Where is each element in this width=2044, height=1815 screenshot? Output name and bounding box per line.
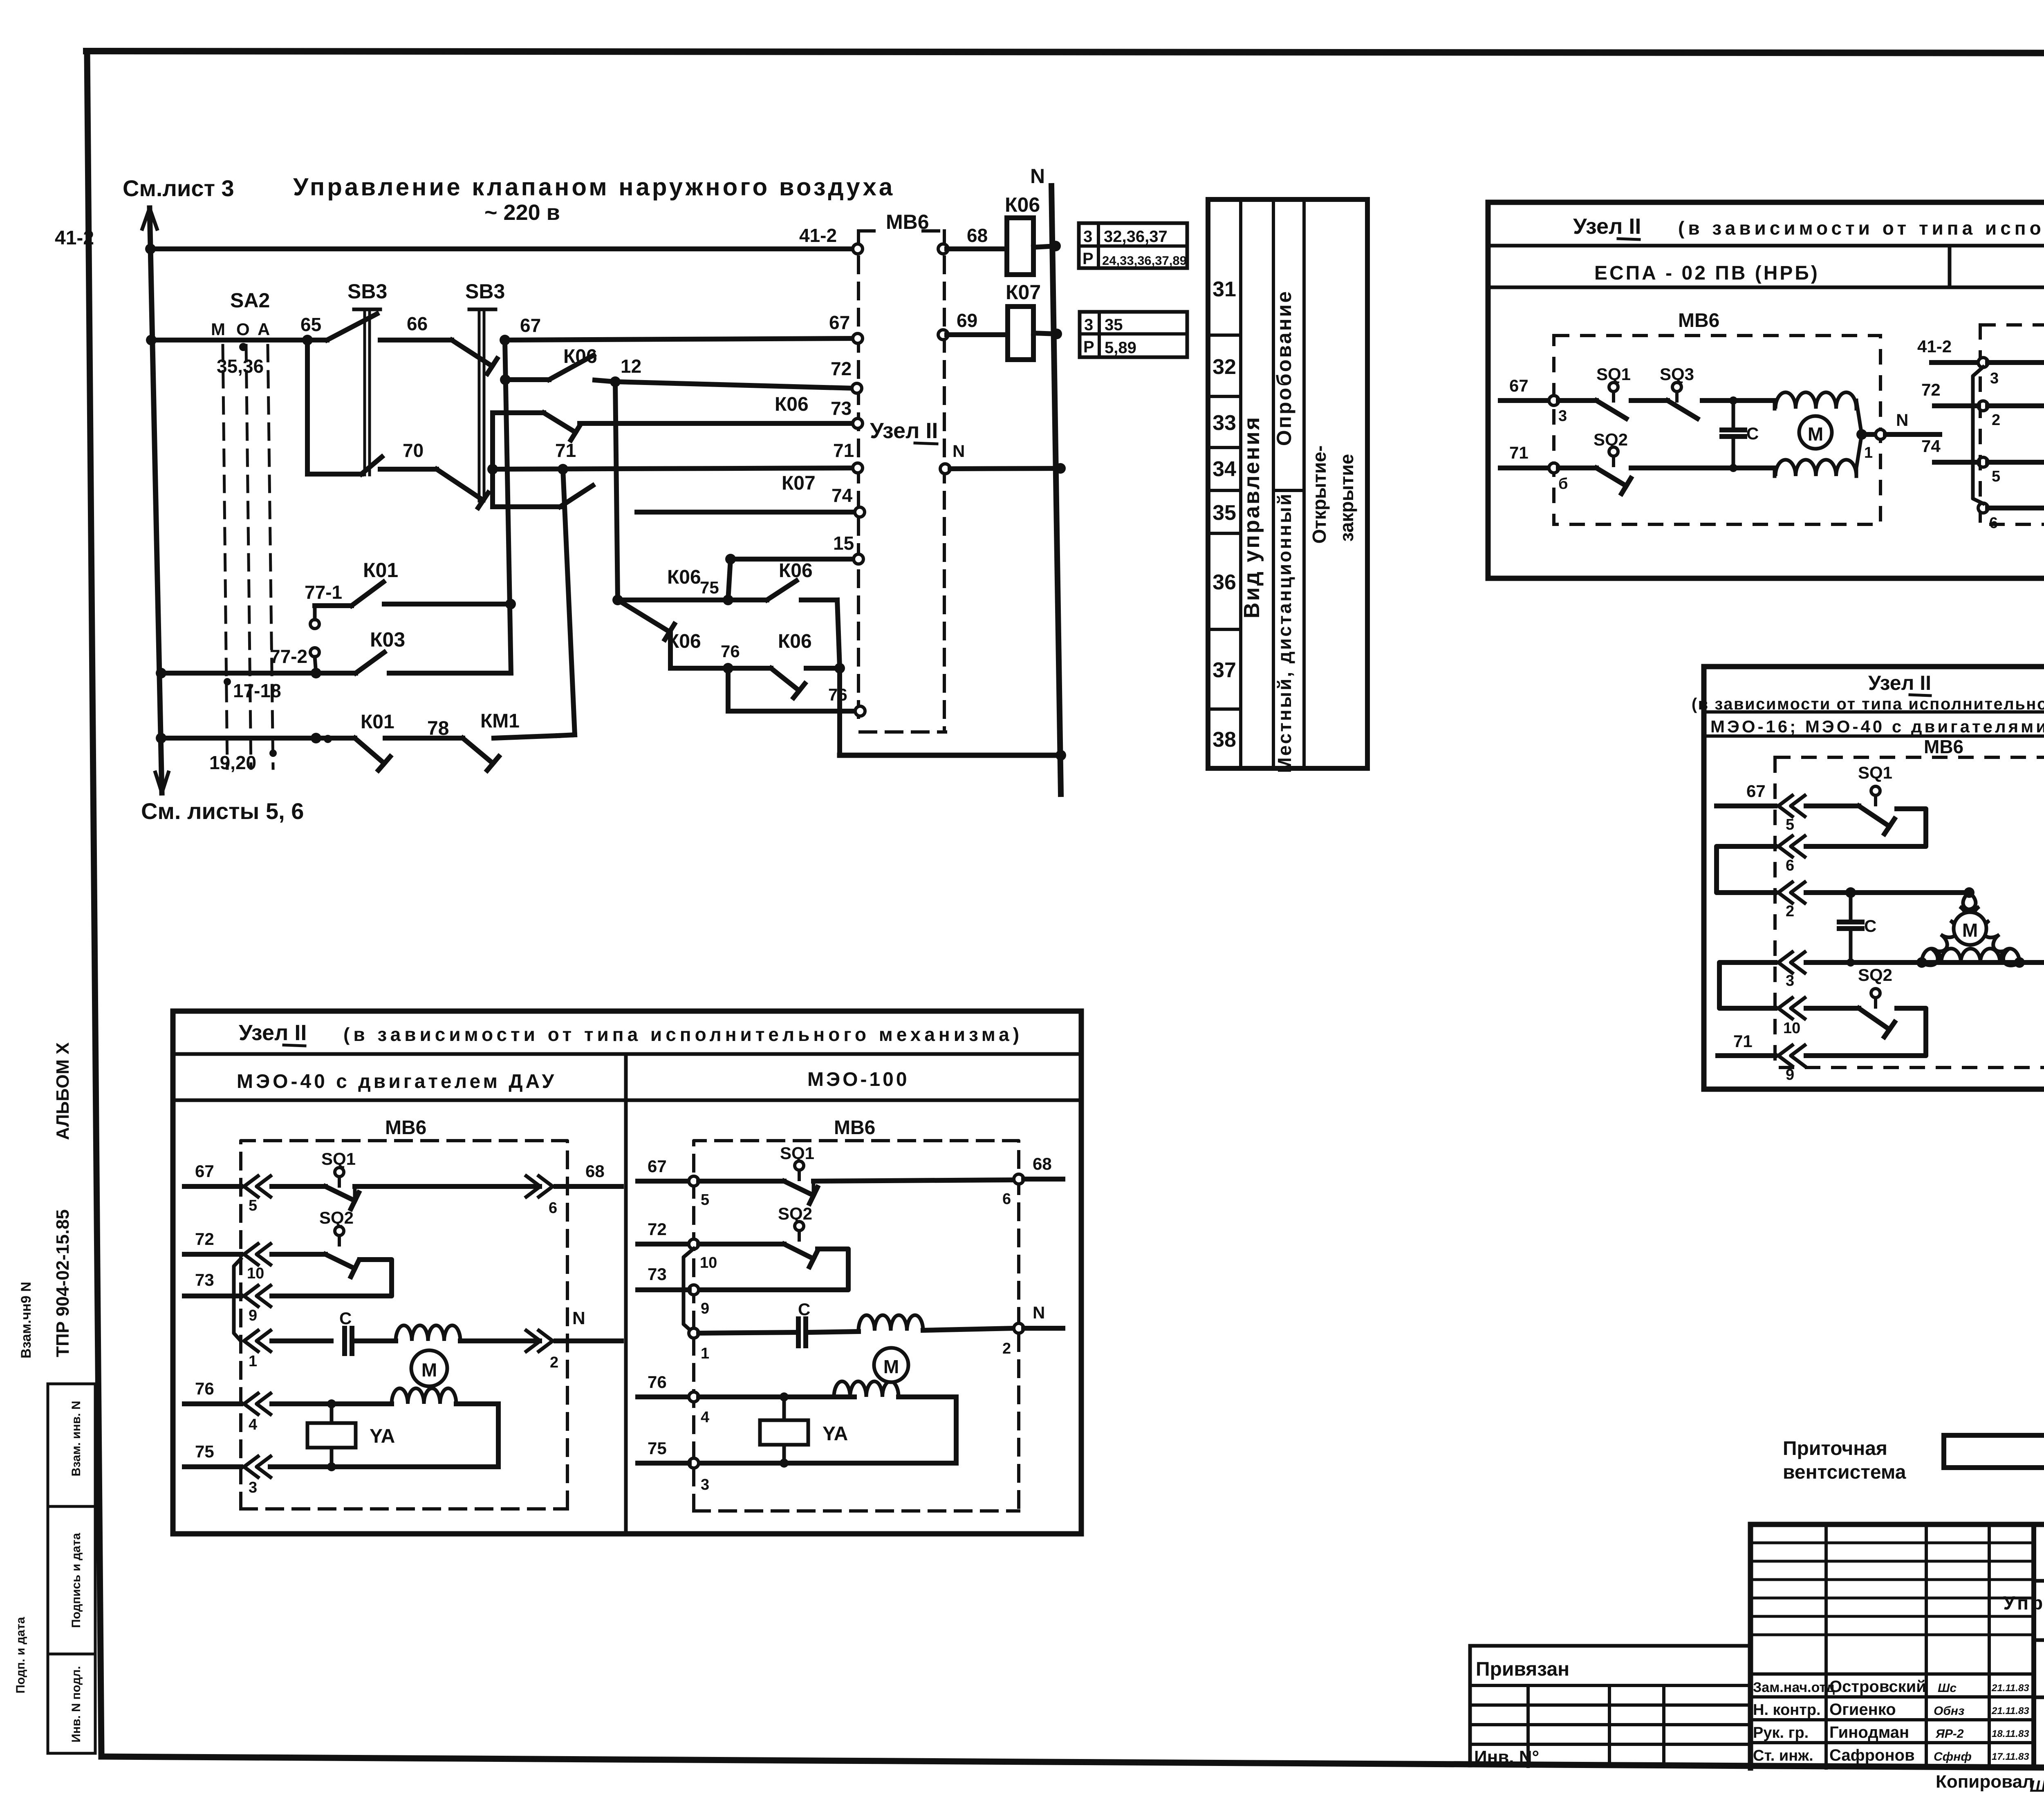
table label Открытие- xyxy=(1309,445,1330,544)
node 77-1 junction on vertical xyxy=(505,599,516,609)
svg-text:17-18: 17-18 xyxy=(233,680,281,701)
title Управление клапаном наружного воздуха xyxy=(293,173,895,201)
svg-text:М: М xyxy=(883,1356,899,1377)
svg-text:Местный, дистанционный: Местный, дистанционный xyxy=(1274,492,1295,773)
МЭО-6.3 wire row 2 xyxy=(1988,402,2044,410)
svg-text:38: 38 xyxy=(1213,728,1236,752)
МЭО-6.3 switch SQ1 xyxy=(1988,324,2044,389)
svg-text:75: 75 xyxy=(648,1439,667,1458)
svg-text:ЯР-2: ЯР-2 xyxy=(1935,1727,1964,1741)
svg-text:69: 69 xyxy=(957,310,977,331)
contact К06 row 73 xyxy=(493,413,855,440)
svg-text:35: 35 xyxy=(1213,501,1236,525)
ЕСПА switch SQ2 xyxy=(1558,430,1631,494)
ДСР arrow row 3 xyxy=(1778,952,1805,990)
relay coil К07 xyxy=(1008,307,1057,360)
МВ6 dashed box xyxy=(858,231,946,732)
ДАУ arrow N out xyxy=(526,1308,621,1371)
label 66 xyxy=(407,313,428,334)
contact К01 row 77-1 xyxy=(315,582,511,606)
svg-text:67: 67 xyxy=(648,1157,667,1176)
svg-text:К06: К06 xyxy=(563,346,597,367)
svg-text:Сафронов: Сафронов xyxy=(1829,1746,1915,1764)
label 65 xyxy=(300,314,321,335)
node row15 junction xyxy=(725,554,736,564)
ЕСПА capacitor C xyxy=(1722,396,1759,472)
svg-text:МВ6: МВ6 xyxy=(834,1117,875,1139)
svg-text:5: 5 xyxy=(249,1197,257,1214)
label 76 small xyxy=(721,642,740,661)
МЭО-100 terminal row76 xyxy=(689,1392,709,1426)
svg-text:М: М xyxy=(1962,920,1978,941)
svg-text:КМ1: КМ1 xyxy=(480,710,520,732)
frame top border xyxy=(86,51,2044,54)
svg-text:2: 2 xyxy=(550,1354,558,1371)
svg-text:вентсистема: вентсистема xyxy=(1783,1461,1906,1483)
label Привязан xyxy=(1476,1658,1569,1680)
label 71 mid xyxy=(555,440,576,461)
svg-text:Узел II: Узел II xyxy=(1573,214,1641,239)
svg-text:3: 3 xyxy=(249,1479,257,1496)
ДАУ wire 75 in xyxy=(184,1442,241,1467)
МВ6 left terminals circles xyxy=(852,244,865,716)
label К06 e xyxy=(778,631,812,652)
label Инв.N xyxy=(1474,1747,1539,1767)
МЭО-6.3 wire 41-2 in xyxy=(1917,337,1979,363)
label 68 xyxy=(967,225,988,246)
svg-text:35,36: 35,36 xyxy=(217,356,264,377)
svg-text:Взам.чн9 N: Взам.чн9 N xyxy=(18,1282,34,1358)
label МЭО-100 xyxy=(807,1069,910,1090)
МЭО-100 switch SQ1 xyxy=(699,1144,1014,1204)
svg-text:SB3: SB3 xyxy=(347,280,387,303)
label Приточная вентсистема xyxy=(1783,1438,1906,1483)
node N junction xyxy=(1055,463,1066,474)
contact К07 row 74 xyxy=(493,486,857,512)
МЭО-100 wire 73 in xyxy=(638,1264,689,1290)
wire table 2 xyxy=(1080,312,1187,357)
svg-text:19,20: 19,20 xyxy=(209,752,256,773)
svg-text:41-2: 41-2 xyxy=(55,227,94,249)
ДАУ wire row 75 xyxy=(270,1462,498,1471)
wire 68 row xyxy=(947,246,1007,251)
svg-text:Инв. N°: Инв. N° xyxy=(1474,1747,1539,1767)
svg-text:Обнз: Обнз xyxy=(1934,1704,1964,1718)
МЭО-100 capacitor C xyxy=(798,1300,858,1346)
switch SA2 dashed lines xyxy=(223,345,273,768)
svg-text:SB3: SB3 xyxy=(465,280,505,303)
ДСР box frame xyxy=(1704,667,2044,1089)
МЭО-100 terminal row1 xyxy=(689,1328,709,1362)
terminal 77-2 circle xyxy=(310,648,319,673)
label К01 lower xyxy=(361,711,394,733)
svg-text:К06: К06 xyxy=(667,566,701,588)
svg-text:С: С xyxy=(798,1300,810,1319)
wire row 70 xyxy=(380,467,437,472)
svg-text:Рук. гр.: Рук. гр. xyxy=(1753,1724,1809,1741)
terminal 77-1 circle xyxy=(310,606,319,629)
svg-text:3: 3 xyxy=(1786,972,1794,989)
ДАУ arrow row 75 xyxy=(244,1457,271,1497)
svg-text:Опробование: Опробование xyxy=(1273,290,1295,446)
ДАУ capacitor C xyxy=(339,1309,396,1354)
svg-text:Узел II: Узел II xyxy=(870,419,938,443)
wire row 65 xyxy=(151,338,327,342)
МЭО-100 terminal 68 xyxy=(1002,1154,1063,1208)
ДАУ wire row N xyxy=(272,1338,331,1343)
svg-text:33: 33 xyxy=(1213,411,1236,435)
frame left border xyxy=(87,51,101,1754)
svg-text:34: 34 xyxy=(1213,457,1236,481)
svg-text:N: N xyxy=(1033,1303,1045,1322)
node lower right junction xyxy=(834,663,845,674)
node bus-1806 junction xyxy=(156,733,166,743)
wire down to N return xyxy=(840,668,1061,755)
svg-text:Шгв-: Шгв- xyxy=(2030,1777,2044,1795)
wire 41-2 top bus xyxy=(150,246,855,251)
pushbutton SB3 first xyxy=(327,309,380,475)
node bus-832 junction xyxy=(146,335,157,345)
svg-text:(в зависимости от типа исполни: (в зависимости от типа исполнительного м… xyxy=(1678,217,2044,239)
ДСР arrow row 10 xyxy=(1778,998,1805,1037)
svg-text:МВ6: МВ6 xyxy=(385,1117,426,1139)
svg-text:1: 1 xyxy=(701,1345,709,1362)
svg-text:1: 1 xyxy=(1864,444,1873,461)
ДСР МВ6 dashed box xyxy=(1775,736,2044,1068)
bottom box frame xyxy=(173,1011,1081,1534)
svg-text:68: 68 xyxy=(585,1162,605,1181)
svg-text:67: 67 xyxy=(829,312,850,333)
ДАУ wire 67 in xyxy=(184,1162,241,1186)
svg-text:Привязан: Привязан xyxy=(1476,1658,1569,1680)
wire node65 down to row 70 xyxy=(307,340,361,474)
empty system box xyxy=(1944,1435,2044,1468)
svg-text:37: 37 xyxy=(1213,658,1236,682)
svg-text:ЕСПА - 02 ПВ (НРБ): ЕСПА - 02 ПВ (НРБ) xyxy=(1594,262,1820,284)
svg-text:Н. контр.: Н. контр. xyxy=(1753,1701,1821,1719)
svg-text:Узел II: Узел II xyxy=(1868,671,1931,694)
label 77-2 xyxy=(270,646,307,667)
wire vertical 12 down xyxy=(615,382,618,600)
label К06 c xyxy=(667,566,701,588)
relay coil К06 xyxy=(1007,218,1056,275)
МЭО-6.3 wire row 5 xyxy=(1988,460,2044,465)
svg-text:(в зависимости от типа исполни: (в зависимости от типа исполнительного м… xyxy=(1692,695,2044,713)
label в зависимости top box xyxy=(1678,217,2044,239)
svg-text:Зам.нач.отд: Зам.нач.отд xyxy=(1753,1680,1835,1695)
svg-text:SQ2: SQ2 xyxy=(1858,965,1892,985)
ДАУ solenoid YA xyxy=(307,1404,395,1467)
wire 67 row to МВ6 xyxy=(505,338,855,340)
ДАУ МВ6 dashed box xyxy=(241,1117,567,1509)
svg-text:Открытие-: Открытие- xyxy=(1309,445,1330,544)
N bus vertical xyxy=(1051,186,1061,794)
table label Местный, дистанционный xyxy=(1274,492,1295,773)
ДСР wire row 2 xyxy=(1806,887,1975,898)
svg-text:6: 6 xyxy=(1989,515,1998,532)
svg-text:6: 6 xyxy=(1002,1191,1011,1208)
ДАУ arrow row 73 xyxy=(244,1286,271,1325)
svg-text:SQ1: SQ1 xyxy=(780,1144,814,1163)
svg-text:77-1: 77-1 xyxy=(305,582,342,603)
ДСР wire 67 in xyxy=(1717,781,1775,806)
ДСР switch SQ2 xyxy=(1806,965,1926,1056)
svg-text:А: А xyxy=(258,320,270,339)
left margin text ТПР 904-02-15.85 xyxy=(53,1209,73,1357)
svg-text:Сфнф: Сфнф xyxy=(1934,1750,1972,1764)
svg-text:К01: К01 xyxy=(363,559,398,582)
svg-text:71: 71 xyxy=(833,440,854,461)
label 67 at МВ6 xyxy=(829,312,850,333)
svg-text:2: 2 xyxy=(1002,1340,1011,1357)
svg-text:Р: Р xyxy=(1083,250,1094,268)
svg-text:5,89: 5,89 xyxy=(1105,339,1136,357)
svg-text:SQ1: SQ1 xyxy=(1858,763,1892,782)
table label Опробование xyxy=(1273,290,1295,446)
label См.лист 3 xyxy=(123,175,234,201)
left margin text Альбом X xyxy=(53,1043,73,1140)
svg-text:77-2: 77-2 xyxy=(270,646,307,667)
svg-text:74: 74 xyxy=(831,485,853,506)
label 17-18 xyxy=(233,680,281,701)
svg-text:6: 6 xyxy=(549,1200,557,1217)
svg-text:67: 67 xyxy=(520,315,541,336)
svg-text:32: 32 xyxy=(1213,355,1236,379)
label К03 xyxy=(370,628,405,651)
svg-text:б: б xyxy=(1558,475,1568,492)
label 41-2 left xyxy=(55,227,94,249)
ДАУ switch SQ2 xyxy=(272,1208,392,1296)
ДАУ arrow row 67 xyxy=(244,1176,271,1215)
ЕСПА switch SQ3 xyxy=(1631,365,1733,419)
title block signature texts xyxy=(1753,1678,1926,1764)
svg-text:10: 10 xyxy=(1783,1020,1800,1037)
svg-text:73: 73 xyxy=(831,398,852,419)
wire vertical К06-К07 pair xyxy=(490,413,495,507)
ЕСПА motor M circle xyxy=(1799,416,1832,449)
ДСР arrow row 6 xyxy=(1778,836,1805,875)
label 12 xyxy=(621,356,641,377)
svg-text:О: О xyxy=(236,320,250,339)
label 72 at МВ6 xyxy=(831,358,852,379)
label 35,36 xyxy=(217,356,264,377)
svg-text:Инв. N подл.: Инв. N подл. xyxy=(69,1666,83,1742)
svg-text:31: 31 xyxy=(1213,278,1236,301)
ДАУ motor winding lower xyxy=(392,1388,498,1467)
svg-text:67: 67 xyxy=(1746,781,1766,801)
node 71-tap junction xyxy=(487,464,498,474)
label 70 xyxy=(403,440,424,461)
table numbers 31-38 xyxy=(1213,278,1236,752)
node 77-2 junction xyxy=(311,668,321,678)
МЭО-100 wire row N xyxy=(699,1332,795,1333)
svg-text:Островский: Островский xyxy=(1829,1678,1926,1696)
svg-text:К06: К06 xyxy=(779,560,813,582)
ДСР motor delta winding xyxy=(1922,893,2019,965)
contact SB3 lower second xyxy=(437,469,488,508)
title block signature scribbles xyxy=(1934,1681,2029,1764)
svg-text:МВ6: МВ6 xyxy=(886,210,929,233)
ДСР wire 71 in xyxy=(1718,1032,1775,1056)
table label Вид управления xyxy=(1239,416,1264,619)
label К06 b xyxy=(779,560,813,582)
МЭО-100 terminal row73 xyxy=(689,1285,709,1317)
ДАУ arrow row 68 out xyxy=(526,1162,621,1217)
wire self-hold row 75 xyxy=(618,598,767,602)
svg-text:N: N xyxy=(572,1308,585,1328)
svg-text:9: 9 xyxy=(1786,1066,1794,1083)
svg-text:78: 78 xyxy=(427,718,449,739)
svg-text:SQ1: SQ1 xyxy=(321,1149,356,1168)
svg-text:Копировал: Копировал xyxy=(1936,1772,2034,1792)
label Копировал xyxy=(1936,1772,2044,1795)
ДСР wire row N xyxy=(1806,957,2044,968)
svg-text:71: 71 xyxy=(1733,1032,1753,1051)
contact К03 xyxy=(356,652,511,673)
wire row 71 to МВ6 xyxy=(495,468,855,469)
label К07 xyxy=(782,472,816,494)
svg-text:Гинодман: Гинодман xyxy=(1829,1723,1909,1741)
МЭО-6.3 МВ6 dashed box xyxy=(1980,301,2044,524)
svg-text:(в зависимости от типа исполни: (в зависимости от типа исполнительного м… xyxy=(343,1024,1023,1045)
svg-text:К06: К06 xyxy=(1005,193,1040,216)
svg-text:YA: YA xyxy=(370,1426,395,1447)
wire table 1 xyxy=(1079,223,1187,268)
contact К06 self-hold upper right xyxy=(767,581,840,667)
svg-text:SQ1: SQ1 xyxy=(1596,365,1631,384)
svg-text:74: 74 xyxy=(1921,436,1941,456)
node 75 mid junction xyxy=(723,595,733,605)
title block stage header xyxy=(2034,1640,2044,1697)
svg-text:66: 66 xyxy=(407,313,428,334)
svg-text:АЛЬБОМ X: АЛЬБОМ X xyxy=(53,1043,73,1140)
label К06 a xyxy=(563,346,597,367)
wire vertical 71 down to КМ1 row xyxy=(563,469,575,735)
wire row 72 to МВ6 xyxy=(615,382,854,388)
wire row 15 xyxy=(728,559,855,600)
ДАУ motor winding upper xyxy=(396,1325,540,1341)
svg-text:21.11.83: 21.11.83 xyxy=(1991,1683,2029,1694)
svg-text:41-2: 41-2 xyxy=(1917,337,1952,356)
svg-text:72: 72 xyxy=(648,1220,667,1239)
svg-text:SA2: SA2 xyxy=(230,289,270,312)
МЭО-100 terminal row67 xyxy=(689,1176,709,1209)
svg-text:Узел II: Узел II xyxy=(239,1021,307,1045)
svg-text:МЭО-16; МЭО-40 с двигателями Д: МЭО-16; МЭО-40 с двигателями ДСР xyxy=(1710,717,2044,736)
ЕСПА terminal 71 xyxy=(1500,443,1568,492)
label 74 xyxy=(831,485,853,506)
label См.листы 5,6 xyxy=(141,798,304,824)
left margin label Инв.N подл. xyxy=(69,1666,83,1742)
МЭО-6.3 wire 72 in xyxy=(1921,380,1979,406)
svg-text:Шс: Шс xyxy=(1938,1681,1957,1695)
label ЕСПА-02 ПВ(НРБ) xyxy=(1594,262,1820,284)
ДАУ wire 76 in xyxy=(184,1379,241,1404)
МЭО-100 terminal row72 xyxy=(689,1239,717,1271)
title block name rows xyxy=(1750,1674,2034,1743)
svg-text:С: С xyxy=(1864,916,1876,935)
svg-text:МЭО-100: МЭО-100 xyxy=(807,1069,910,1090)
node II box frame xyxy=(1488,202,2044,578)
svg-text:YA: YA xyxy=(823,1423,848,1445)
svg-text:6: 6 xyxy=(1786,857,1794,874)
left margin handwriting xyxy=(18,1282,34,1358)
ДАУ wire 73 in xyxy=(184,1270,241,1296)
label Узел II main xyxy=(870,419,938,444)
svg-text:Управление клапаном наружного: Управление клапаном наружного воздуха xyxy=(293,173,895,201)
МЭО-100 left jog xyxy=(684,1249,694,1333)
МЭО-100 wire row 75 xyxy=(699,1459,956,1468)
svg-text:Взам. инв. N: Взам. инв. N xyxy=(69,1401,83,1476)
МЭО-6.3 left terminals xyxy=(1978,358,2000,532)
svg-text:4: 4 xyxy=(249,1416,257,1433)
МЭО-100 wire 72 in xyxy=(638,1220,689,1244)
label N bus xyxy=(1030,165,1045,188)
svg-text:МВ6: МВ6 xyxy=(1924,736,1963,757)
svg-text:Огиенко: Огиенко xyxy=(1829,1701,1896,1719)
svg-text:2: 2 xyxy=(1992,412,2000,429)
МЭО-100 motor winding upper xyxy=(858,1315,1014,1331)
wire 69 row xyxy=(947,332,1008,337)
svg-text:N: N xyxy=(1896,410,1908,430)
svg-text:Вид управления: Вид управления xyxy=(1239,416,1264,619)
svg-text:Подпись и дата: Подпись и дата xyxy=(69,1533,83,1628)
svg-text:N: N xyxy=(953,441,965,461)
svg-text:N: N xyxy=(1030,165,1045,188)
svg-text:~ 220 в: ~ 220 в xyxy=(484,200,560,225)
svg-text:72: 72 xyxy=(1921,380,1941,399)
svg-text:3: 3 xyxy=(1084,316,1093,334)
svg-text:41-2: 41-2 xyxy=(799,225,837,246)
label 78 xyxy=(427,718,449,739)
svg-text:67: 67 xyxy=(1509,376,1529,395)
label К07 coil xyxy=(1006,281,1041,304)
ДАУ switch SQ1 xyxy=(272,1149,540,1209)
svg-text:68: 68 xyxy=(967,225,988,246)
svg-text:24,33,36,37,89: 24,33,36,37,89 xyxy=(1102,253,1187,268)
svg-text:17.11.83: 17.11.83 xyxy=(1992,1751,2029,1762)
svg-text:73: 73 xyxy=(648,1264,667,1284)
svg-text:МЭО-40 с двигателем ДАУ: МЭО-40 с двигателем ДАУ xyxy=(237,1071,557,1092)
contact K06 node67-12 xyxy=(505,355,615,382)
svg-text:75: 75 xyxy=(700,578,719,597)
node 76 mid junction xyxy=(723,663,733,674)
ДАУ arrow row 1 xyxy=(244,1331,271,1370)
ДСР left hook 6-2 xyxy=(1717,846,1775,893)
svg-text:Р: Р xyxy=(1083,338,1094,356)
label SA2 xyxy=(230,289,270,312)
svg-text:К01: К01 xyxy=(361,711,394,733)
ДСР arrow row 2 xyxy=(1778,882,1805,920)
svg-text:9: 9 xyxy=(249,1307,257,1324)
svg-text:М: М xyxy=(421,1359,437,1381)
svg-text:ТПР 904-02-15.85: ТПР 904-02-15.85 xyxy=(53,1209,73,1357)
МЭО-100 switch SQ2 xyxy=(699,1204,848,1290)
svg-text:70: 70 xyxy=(403,440,424,461)
node 67 junction xyxy=(500,335,510,345)
svg-text:К07: К07 xyxy=(1006,281,1041,304)
svg-text:12: 12 xyxy=(621,356,641,377)
label Узел II bottom box xyxy=(239,1021,307,1046)
svg-text:10: 10 xyxy=(700,1254,717,1271)
svg-text:75: 75 xyxy=(195,1442,214,1461)
svg-text:SQ2: SQ2 xyxy=(319,1208,354,1227)
left margin label Взам.инв.N xyxy=(69,1401,83,1476)
МЭО-100 wire 75 in xyxy=(638,1439,689,1463)
node on О line xyxy=(239,343,247,351)
label ~220в xyxy=(484,200,560,225)
pushbutton SB3 second xyxy=(452,309,497,501)
